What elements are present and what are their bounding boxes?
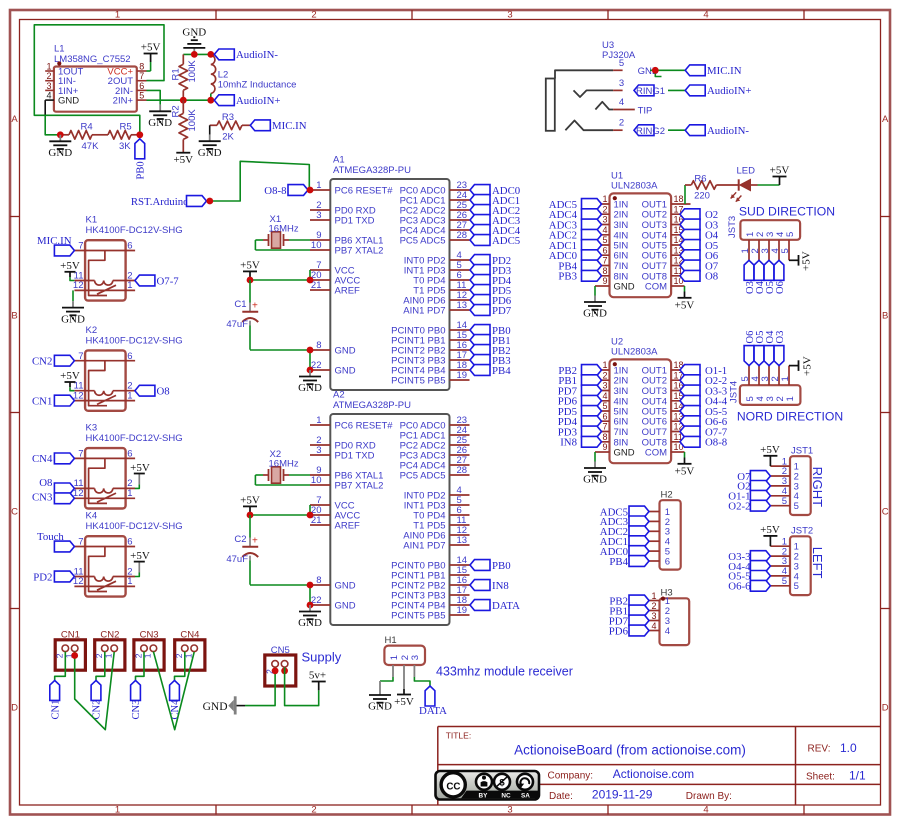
svg-text:10mhZ Inductance: 10mhZ Inductance bbox=[218, 80, 297, 91]
svg-text:A: A bbox=[11, 114, 18, 125]
power +5V at LED bbox=[770, 165, 790, 186]
svg-text:K2: K2 bbox=[86, 325, 98, 336]
svg-text:PC6 RESET#: PC6 RESET# bbox=[335, 421, 394, 432]
connector JST1 bbox=[770, 446, 813, 516]
IC U1 ULN2803A bbox=[590, 171, 691, 298]
svg-text:R5: R5 bbox=[120, 122, 132, 133]
svg-text:8: 8 bbox=[316, 340, 321, 351]
svg-text:4: 4 bbox=[703, 10, 708, 21]
net flag Touch bbox=[37, 531, 74, 552]
net flag PD7 bbox=[470, 305, 512, 317]
svg-text:A1: A1 bbox=[333, 155, 345, 166]
label LEFT bbox=[810, 547, 825, 579]
net flag O5-5 bbox=[728, 571, 770, 583]
svg-text:PD7: PD7 bbox=[492, 305, 512, 317]
net flag PB1 at H3 bbox=[609, 605, 649, 617]
wire 2OUT loop bbox=[34, 25, 164, 135]
svg-text:C: C bbox=[882, 507, 889, 518]
net flag AudioIN- at U3 bbox=[685, 125, 749, 137]
svg-text:1: 1 bbox=[127, 576, 132, 587]
net flag PB0 bbox=[135, 139, 146, 180]
svg-text:+5V: +5V bbox=[240, 494, 260, 506]
junction L2 bottom bbox=[207, 97, 214, 104]
junction AVCC bbox=[307, 512, 314, 519]
junction U3 pin5 bbox=[652, 67, 659, 74]
svg-text:GND: GND bbox=[298, 617, 322, 629]
svg-text:+5V: +5V bbox=[60, 260, 80, 272]
resistor R5 bbox=[108, 122, 140, 152]
net flag ADC2 bbox=[549, 229, 602, 241]
svg-text:PB0: PB0 bbox=[135, 161, 146, 179]
ground above R1 bbox=[182, 26, 206, 54]
svg-text:10: 10 bbox=[311, 475, 322, 486]
wire RING1 to AudioIN+ bbox=[668, 89, 685, 91]
net flag O2-2 bbox=[728, 500, 770, 512]
svg-text:+5V: +5V bbox=[130, 462, 150, 474]
svg-text:GND: GND bbox=[182, 26, 206, 38]
net flag O7 bbox=[680, 260, 719, 272]
resistor R1 bbox=[170, 54, 198, 100]
svg-text:1/1: 1/1 bbox=[849, 768, 866, 782]
wire LED to +5V bbox=[758, 184, 780, 186]
net flag O5 bbox=[680, 240, 718, 252]
net flag RING2 bbox=[634, 125, 665, 137]
svg-text:AudioIN+: AudioIN+ bbox=[236, 95, 280, 107]
svg-text:AudioIN-: AudioIN- bbox=[707, 125, 749, 137]
svg-text:GND: GND bbox=[583, 474, 607, 486]
wire AudioIN- rail bbox=[183, 53, 211, 55]
svg-text:COM: COM bbox=[645, 448, 667, 459]
svg-text:+5V: +5V bbox=[802, 356, 814, 376]
net flag PD6 bbox=[558, 395, 602, 407]
svg-text:3: 3 bbox=[619, 78, 624, 89]
relay K1 HK4100F-DC12V-SHG bbox=[73, 215, 183, 301]
wire U1 OUT1 to R6 bbox=[684, 185, 686, 204]
svg-text:6: 6 bbox=[139, 81, 144, 91]
net flag ADC5 bbox=[549, 199, 602, 211]
IC U2 ULN2803A bbox=[590, 337, 691, 464]
junction CN5 pin1 bbox=[281, 667, 288, 674]
svg-text:Drawn By:: Drawn By: bbox=[686, 791, 732, 802]
net flag ADC1 bbox=[549, 240, 602, 252]
header H2 bbox=[649, 490, 681, 570]
wire RING2 to AudioIN- bbox=[668, 129, 685, 131]
wire RST to A1 pin1 bbox=[210, 161, 309, 201]
svg-text:16MHz: 16MHz bbox=[269, 223, 299, 234]
svg-text:SUD DIRECTION: SUD DIRECTION bbox=[739, 205, 835, 219]
svg-text:B: B bbox=[11, 311, 17, 322]
svg-text:1.0: 1.0 bbox=[840, 741, 857, 755]
net flag MIC.IN at U3 bbox=[685, 65, 741, 77]
connector CN3 bbox=[133, 629, 164, 670]
junction CN5 pin2 bbox=[272, 667, 279, 674]
svg-text:6: 6 bbox=[602, 411, 607, 421]
svg-text:R4: R4 bbox=[81, 122, 93, 133]
svg-text:1: 1 bbox=[785, 396, 796, 401]
ground at L1 pin 6 bbox=[148, 105, 172, 129]
net flag DATA bbox=[470, 600, 520, 612]
svg-text:+5V: +5V bbox=[760, 524, 780, 536]
svg-text:O6: O6 bbox=[775, 281, 786, 294]
ground below IC bbox=[298, 605, 322, 629]
power 5v+ bbox=[309, 670, 326, 691]
power +5V at JST2 pin1 bbox=[760, 524, 780, 546]
svg-text:6: 6 bbox=[127, 449, 132, 460]
junction GND pin 8 bbox=[307, 582, 314, 589]
svg-text:3: 3 bbox=[602, 381, 607, 391]
svg-text:SA: SA bbox=[521, 792, 530, 799]
svg-text:7: 7 bbox=[602, 422, 607, 432]
svg-text:TITLE:: TITLE: bbox=[446, 730, 472, 740]
svg-text:3: 3 bbox=[602, 215, 607, 225]
svg-text:RIGHT: RIGHT bbox=[810, 467, 825, 508]
svg-text:GND: GND bbox=[614, 448, 635, 459]
net flag CN1 bbox=[50, 680, 62, 719]
net flag PD7 bbox=[558, 385, 602, 397]
svg-text:O2-2: O2-2 bbox=[728, 501, 750, 513]
svg-text:3: 3 bbox=[316, 445, 321, 456]
net flag PD2 bbox=[33, 571, 74, 583]
net flag IN8 bbox=[470, 580, 509, 592]
audio jack U3 PJ320A bbox=[546, 40, 659, 131]
net flag ADC5 bbox=[470, 235, 520, 247]
svg-text:3: 3 bbox=[410, 655, 421, 660]
net flag AudioIN+ at U3 bbox=[685, 85, 751, 97]
LED bbox=[731, 165, 758, 201]
svg-text:PD1 TXD: PD1 TXD bbox=[335, 451, 375, 462]
net flag PD6 bbox=[470, 295, 512, 307]
svg-text:28: 28 bbox=[457, 230, 468, 241]
svg-text:3: 3 bbox=[316, 210, 321, 221]
svg-text:AudioIN+: AudioIN+ bbox=[707, 85, 751, 97]
svg-text:8: 8 bbox=[316, 575, 321, 586]
svg-text:PD1 TXD: PD1 TXD bbox=[335, 216, 375, 227]
svg-text:Sheet:: Sheet: bbox=[806, 772, 835, 783]
net flag O3-3 bbox=[728, 551, 770, 563]
svg-text:7: 7 bbox=[78, 537, 83, 548]
svg-text:3: 3 bbox=[507, 805, 512, 816]
svg-text:LED: LED bbox=[737, 165, 756, 176]
svg-text:HK4100F-DC12V-SHG: HK4100F-DC12V-SHG bbox=[86, 521, 183, 532]
svg-text:CN3: CN3 bbox=[32, 492, 52, 504]
svg-text:GND: GND bbox=[148, 117, 172, 129]
svg-text:Supply: Supply bbox=[302, 650, 342, 665]
wire CN3 pin2 to flag bbox=[136, 652, 145, 681]
svg-text:R1: R1 bbox=[170, 68, 181, 80]
junction AVCC bbox=[307, 277, 314, 284]
svg-text:REV:: REV: bbox=[808, 744, 831, 755]
junction +5V rail bbox=[247, 512, 254, 519]
svg-text:GND: GND bbox=[614, 282, 635, 293]
svg-text:5: 5 bbox=[602, 235, 607, 245]
net flag CN2 bbox=[91, 680, 103, 719]
svg-text:+5V: +5V bbox=[675, 465, 695, 477]
svg-text:1: 1 bbox=[602, 194, 607, 204]
svg-text:+5V: +5V bbox=[394, 696, 414, 708]
svg-text:PC5 ADC5: PC5 ADC5 bbox=[400, 471, 446, 482]
svg-text:7: 7 bbox=[78, 241, 83, 252]
power +5V at relay contact bbox=[130, 550, 150, 577]
svg-text:2: 2 bbox=[651, 601, 656, 611]
svg-text:220: 220 bbox=[694, 191, 710, 202]
svg-text:PCINT5 PB5: PCINT5 PB5 bbox=[391, 611, 445, 622]
power +5V at relay contact bbox=[130, 462, 150, 489]
net flag PD6 at H3 bbox=[609, 625, 649, 637]
svg-text:K4: K4 bbox=[86, 511, 98, 522]
net flag PD5 bbox=[558, 406, 602, 418]
svg-text:CN1: CN1 bbox=[32, 395, 52, 407]
svg-text:HK4100F-DC12V-SHG: HK4100F-DC12V-SHG bbox=[86, 225, 183, 236]
power +5V at L1 pin 8 bbox=[141, 42, 161, 72]
wire CN5 pin2 to GND bbox=[237, 667, 276, 705]
svg-text:TIP: TIP bbox=[638, 105, 653, 116]
wire H1 pin3 to DATA bbox=[414, 665, 430, 686]
svg-text:1: 1 bbox=[46, 62, 51, 72]
CC license logo BY-NC-SA bbox=[436, 771, 540, 800]
net flag O4 above JST4 bbox=[764, 330, 776, 366]
ground below IC bbox=[298, 370, 322, 394]
svg-text:GND: GND bbox=[298, 382, 322, 394]
svg-text:5: 5 bbox=[782, 576, 787, 587]
svg-text:GND: GND bbox=[583, 308, 607, 320]
svg-text:6: 6 bbox=[127, 537, 132, 548]
wire H1 pin1 to ground bbox=[380, 665, 393, 689]
net flag CN4 bbox=[170, 680, 182, 719]
svg-text:A: A bbox=[882, 114, 889, 125]
power +5V at U1 COM bbox=[675, 292, 695, 312]
wire 2IN+ net AudioIN+ bbox=[147, 99, 211, 101]
net flag O5 above JST4 bbox=[754, 331, 766, 366]
net flag O8-8 at A1 pin1 bbox=[264, 185, 308, 197]
svg-text:5: 5 bbox=[780, 248, 791, 253]
svg-text:6: 6 bbox=[127, 241, 132, 252]
svg-text:H1: H1 bbox=[385, 635, 397, 646]
wire CN3 to CN4 crossover bbox=[153, 652, 194, 730]
net flag CN4 bbox=[32, 453, 74, 465]
svg-text:1: 1 bbox=[602, 360, 607, 370]
svg-text:5: 5 bbox=[794, 581, 799, 592]
svg-text:PD2: PD2 bbox=[33, 571, 52, 583]
svg-text:4: 4 bbox=[602, 225, 607, 235]
svg-text:D: D bbox=[11, 703, 18, 714]
svg-text:4: 4 bbox=[602, 391, 607, 401]
wire CN4 pin2 to flag bbox=[175, 652, 185, 681]
IC A1 ATMEGA328P-PU bbox=[310, 155, 470, 391]
net flag ADC4 bbox=[549, 209, 602, 221]
svg-text:CN2: CN2 bbox=[92, 700, 103, 720]
svg-text:AIN1 PD7: AIN1 PD7 bbox=[403, 541, 445, 552]
net flag PD3 bbox=[470, 265, 511, 277]
junction GND pin 22 bbox=[307, 367, 314, 374]
svg-text:2: 2 bbox=[46, 71, 51, 81]
label Supply bbox=[302, 650, 342, 665]
svg-text:PB4: PB4 bbox=[609, 556, 628, 568]
svg-text:19: 19 bbox=[457, 370, 468, 381]
svg-text:16MHz: 16MHz bbox=[269, 458, 299, 469]
label SUD DIRECTION bbox=[739, 205, 835, 219]
op-amp L1 LM358NG_C7552 bbox=[45, 44, 146, 112]
svg-text:PB4: PB4 bbox=[492, 365, 511, 377]
wire 2IN- to ground bbox=[147, 90, 161, 104]
net flag ADC4 bbox=[470, 225, 521, 237]
net flag O8 bbox=[680, 270, 718, 282]
svg-text:HK4100F-DC12V-SHG: HK4100F-DC12V-SHG bbox=[86, 433, 183, 444]
net flag ADC0 at H2 bbox=[600, 546, 649, 558]
svg-text:5: 5 bbox=[619, 58, 624, 69]
svg-text:O3: O3 bbox=[775, 331, 786, 344]
power +5V at JST3 pin5 bbox=[789, 251, 813, 271]
svg-text:LM358NG_C7552: LM358NG_C7552 bbox=[54, 54, 131, 65]
svg-text:4: 4 bbox=[619, 97, 624, 108]
net flag PB2 bbox=[558, 365, 601, 377]
svg-text:1: 1 bbox=[127, 390, 132, 401]
connector CN4 bbox=[174, 629, 205, 670]
net flag O4 bbox=[680, 229, 719, 241]
wire GND pin9 bbox=[594, 286, 596, 296]
power +5V at U2 COM bbox=[675, 458, 695, 478]
svg-text:5v+: 5v+ bbox=[309, 670, 326, 682]
svg-text:2: 2 bbox=[400, 655, 411, 660]
connector JST4 bbox=[729, 366, 801, 405]
wire cap to GND pin bbox=[250, 585, 310, 605]
junction GND pin 8 bbox=[307, 347, 314, 354]
net flag ADC0 bbox=[470, 185, 520, 197]
svg-text:8: 8 bbox=[602, 266, 607, 276]
svg-text:NC: NC bbox=[501, 792, 511, 799]
header H3 bbox=[649, 588, 689, 645]
svg-text:MIC.IN: MIC.IN bbox=[272, 120, 307, 132]
net flag ADC3 bbox=[470, 215, 520, 227]
net flag O8 bbox=[39, 477, 74, 494]
svg-text:GND: GND bbox=[335, 601, 356, 612]
svg-text:O6-6: O6-6 bbox=[728, 581, 751, 593]
svg-text:PB7 XTAL2: PB7 XTAL2 bbox=[335, 481, 384, 492]
connector CN1 bbox=[55, 629, 86, 670]
svg-text:ULN2803A: ULN2803A bbox=[611, 347, 658, 358]
svg-text:47uF: 47uF bbox=[226, 319, 248, 330]
wire COM pin10 bbox=[684, 286, 686, 292]
svg-text:7: 7 bbox=[78, 449, 83, 460]
svg-text:B: B bbox=[882, 311, 888, 322]
net flag ADC3 at H2 bbox=[600, 516, 649, 528]
svg-text:AudioIN-: AudioIN- bbox=[236, 49, 278, 61]
net flag O6 bbox=[680, 250, 719, 262]
svg-text:5: 5 bbox=[602, 401, 607, 411]
junction R4 left bbox=[57, 131, 64, 138]
power +5V rail bbox=[240, 259, 260, 280]
svg-text:1: 1 bbox=[780, 376, 791, 381]
svg-text:2: 2 bbox=[602, 370, 607, 380]
wire +5V to AVCC bbox=[250, 270, 310, 280]
power +5V at JST1 pin1 bbox=[760, 444, 780, 466]
svg-text:+5V: +5V bbox=[675, 299, 695, 311]
junction CN1 pin1 bbox=[71, 652, 78, 659]
svg-text:6: 6 bbox=[127, 351, 132, 362]
svg-text:HK4100F-DC12V-SHG: HK4100F-DC12V-SHG bbox=[86, 335, 183, 346]
net flag RST.Arduino bbox=[131, 196, 207, 208]
svg-text:2019-11-29: 2019-11-29 bbox=[592, 788, 653, 802]
svg-text:AREF: AREF bbox=[335, 521, 361, 532]
svg-text:5: 5 bbox=[794, 501, 799, 512]
header H1 bbox=[384, 635, 425, 665]
net flag O6-6 bbox=[728, 580, 770, 592]
net flag O3 above JST4 bbox=[774, 331, 786, 366]
svg-text:ATMEGA328P-PU: ATMEGA328P-PU bbox=[333, 165, 411, 176]
svg-text:9: 9 bbox=[602, 442, 607, 452]
svg-text:ADC5: ADC5 bbox=[492, 235, 520, 247]
svg-text:1: 1 bbox=[127, 280, 132, 291]
svg-text:NORD DIRECTION: NORD DIRECTION bbox=[737, 409, 843, 423]
wire U3 GND to MIC.IN bbox=[650, 70, 685, 76]
svg-text:O8-8: O8-8 bbox=[705, 437, 727, 449]
net flag AudioIN- bbox=[214, 49, 278, 61]
resistor R3 bbox=[210, 112, 251, 142]
ground at U2 bbox=[583, 462, 607, 486]
power +5V at relay coil bbox=[60, 260, 80, 281]
svg-text:R3: R3 bbox=[222, 112, 234, 123]
net flag O6-6 bbox=[680, 416, 728, 428]
net flag CN1 bbox=[32, 395, 74, 407]
svg-text:+5V: +5V bbox=[141, 42, 161, 54]
wire H1 pin2 to +5V bbox=[403, 665, 405, 689]
svg-text:1: 1 bbox=[127, 488, 132, 499]
svg-text:AIN1 PD7: AIN1 PD7 bbox=[403, 306, 445, 317]
net flag PB1 bbox=[470, 335, 511, 347]
net flag PB4 bbox=[470, 365, 511, 377]
svg-text:PCINT5 PB5: PCINT5 PB5 bbox=[391, 376, 445, 387]
net flag PB4 at H2 bbox=[609, 556, 649, 568]
net flag O4-4 bbox=[728, 561, 770, 573]
svg-text:2IN+: 2IN+ bbox=[113, 96, 134, 107]
svg-text:+5V: +5V bbox=[60, 370, 80, 382]
crystal X2 bbox=[255, 449, 310, 485]
wire +5V to AVCC bbox=[250, 505, 310, 515]
svg-text:PC6 RESET#: PC6 RESET# bbox=[335, 186, 394, 197]
power +5V rail bbox=[240, 494, 260, 515]
svg-text:O8: O8 bbox=[705, 271, 718, 283]
svg-text:CC: CC bbox=[446, 781, 460, 792]
svg-text:JST1: JST1 bbox=[791, 446, 813, 457]
svg-text:JST3: JST3 bbox=[727, 216, 738, 238]
svg-text:100K: 100K bbox=[187, 60, 198, 83]
svg-text:+: + bbox=[252, 301, 258, 312]
svg-text:RING2: RING2 bbox=[636, 126, 665, 137]
svg-text:PB7 XTAL2: PB7 XTAL2 bbox=[335, 246, 384, 257]
net flag PB1 bbox=[558, 375, 601, 387]
power +5V at JST4 pin1 bbox=[789, 356, 814, 376]
svg-text:C2: C2 bbox=[234, 534, 246, 545]
svg-text:PC5 ADC5: PC5 ADC5 bbox=[400, 236, 446, 247]
net flag ADC1 bbox=[470, 195, 520, 207]
capacitor C1 bbox=[226, 280, 258, 350]
ground at U1 bbox=[583, 296, 607, 320]
net flag O4-4 bbox=[680, 395, 728, 407]
svg-text:19: 19 bbox=[457, 605, 468, 616]
wire CN2 pin2 to flag bbox=[96, 652, 105, 681]
wire K1 pin12 to ground bbox=[72, 290, 74, 301]
svg-text:13: 13 bbox=[457, 300, 468, 311]
wire GND pin9 bbox=[594, 452, 596, 462]
svg-text:H2: H2 bbox=[661, 490, 673, 501]
svg-text:1: 1 bbox=[115, 10, 120, 21]
net flag MIC.IN at R3 bbox=[250, 120, 306, 132]
net flag DATA at H1 bbox=[419, 686, 447, 717]
net flag O3-3 bbox=[680, 385, 727, 397]
net flag PD4 bbox=[558, 416, 602, 428]
connector CN5 bbox=[264, 645, 295, 686]
svg-text:Actionoise.com: Actionoise.com bbox=[613, 767, 694, 781]
net flag O7-7 bbox=[680, 426, 728, 438]
